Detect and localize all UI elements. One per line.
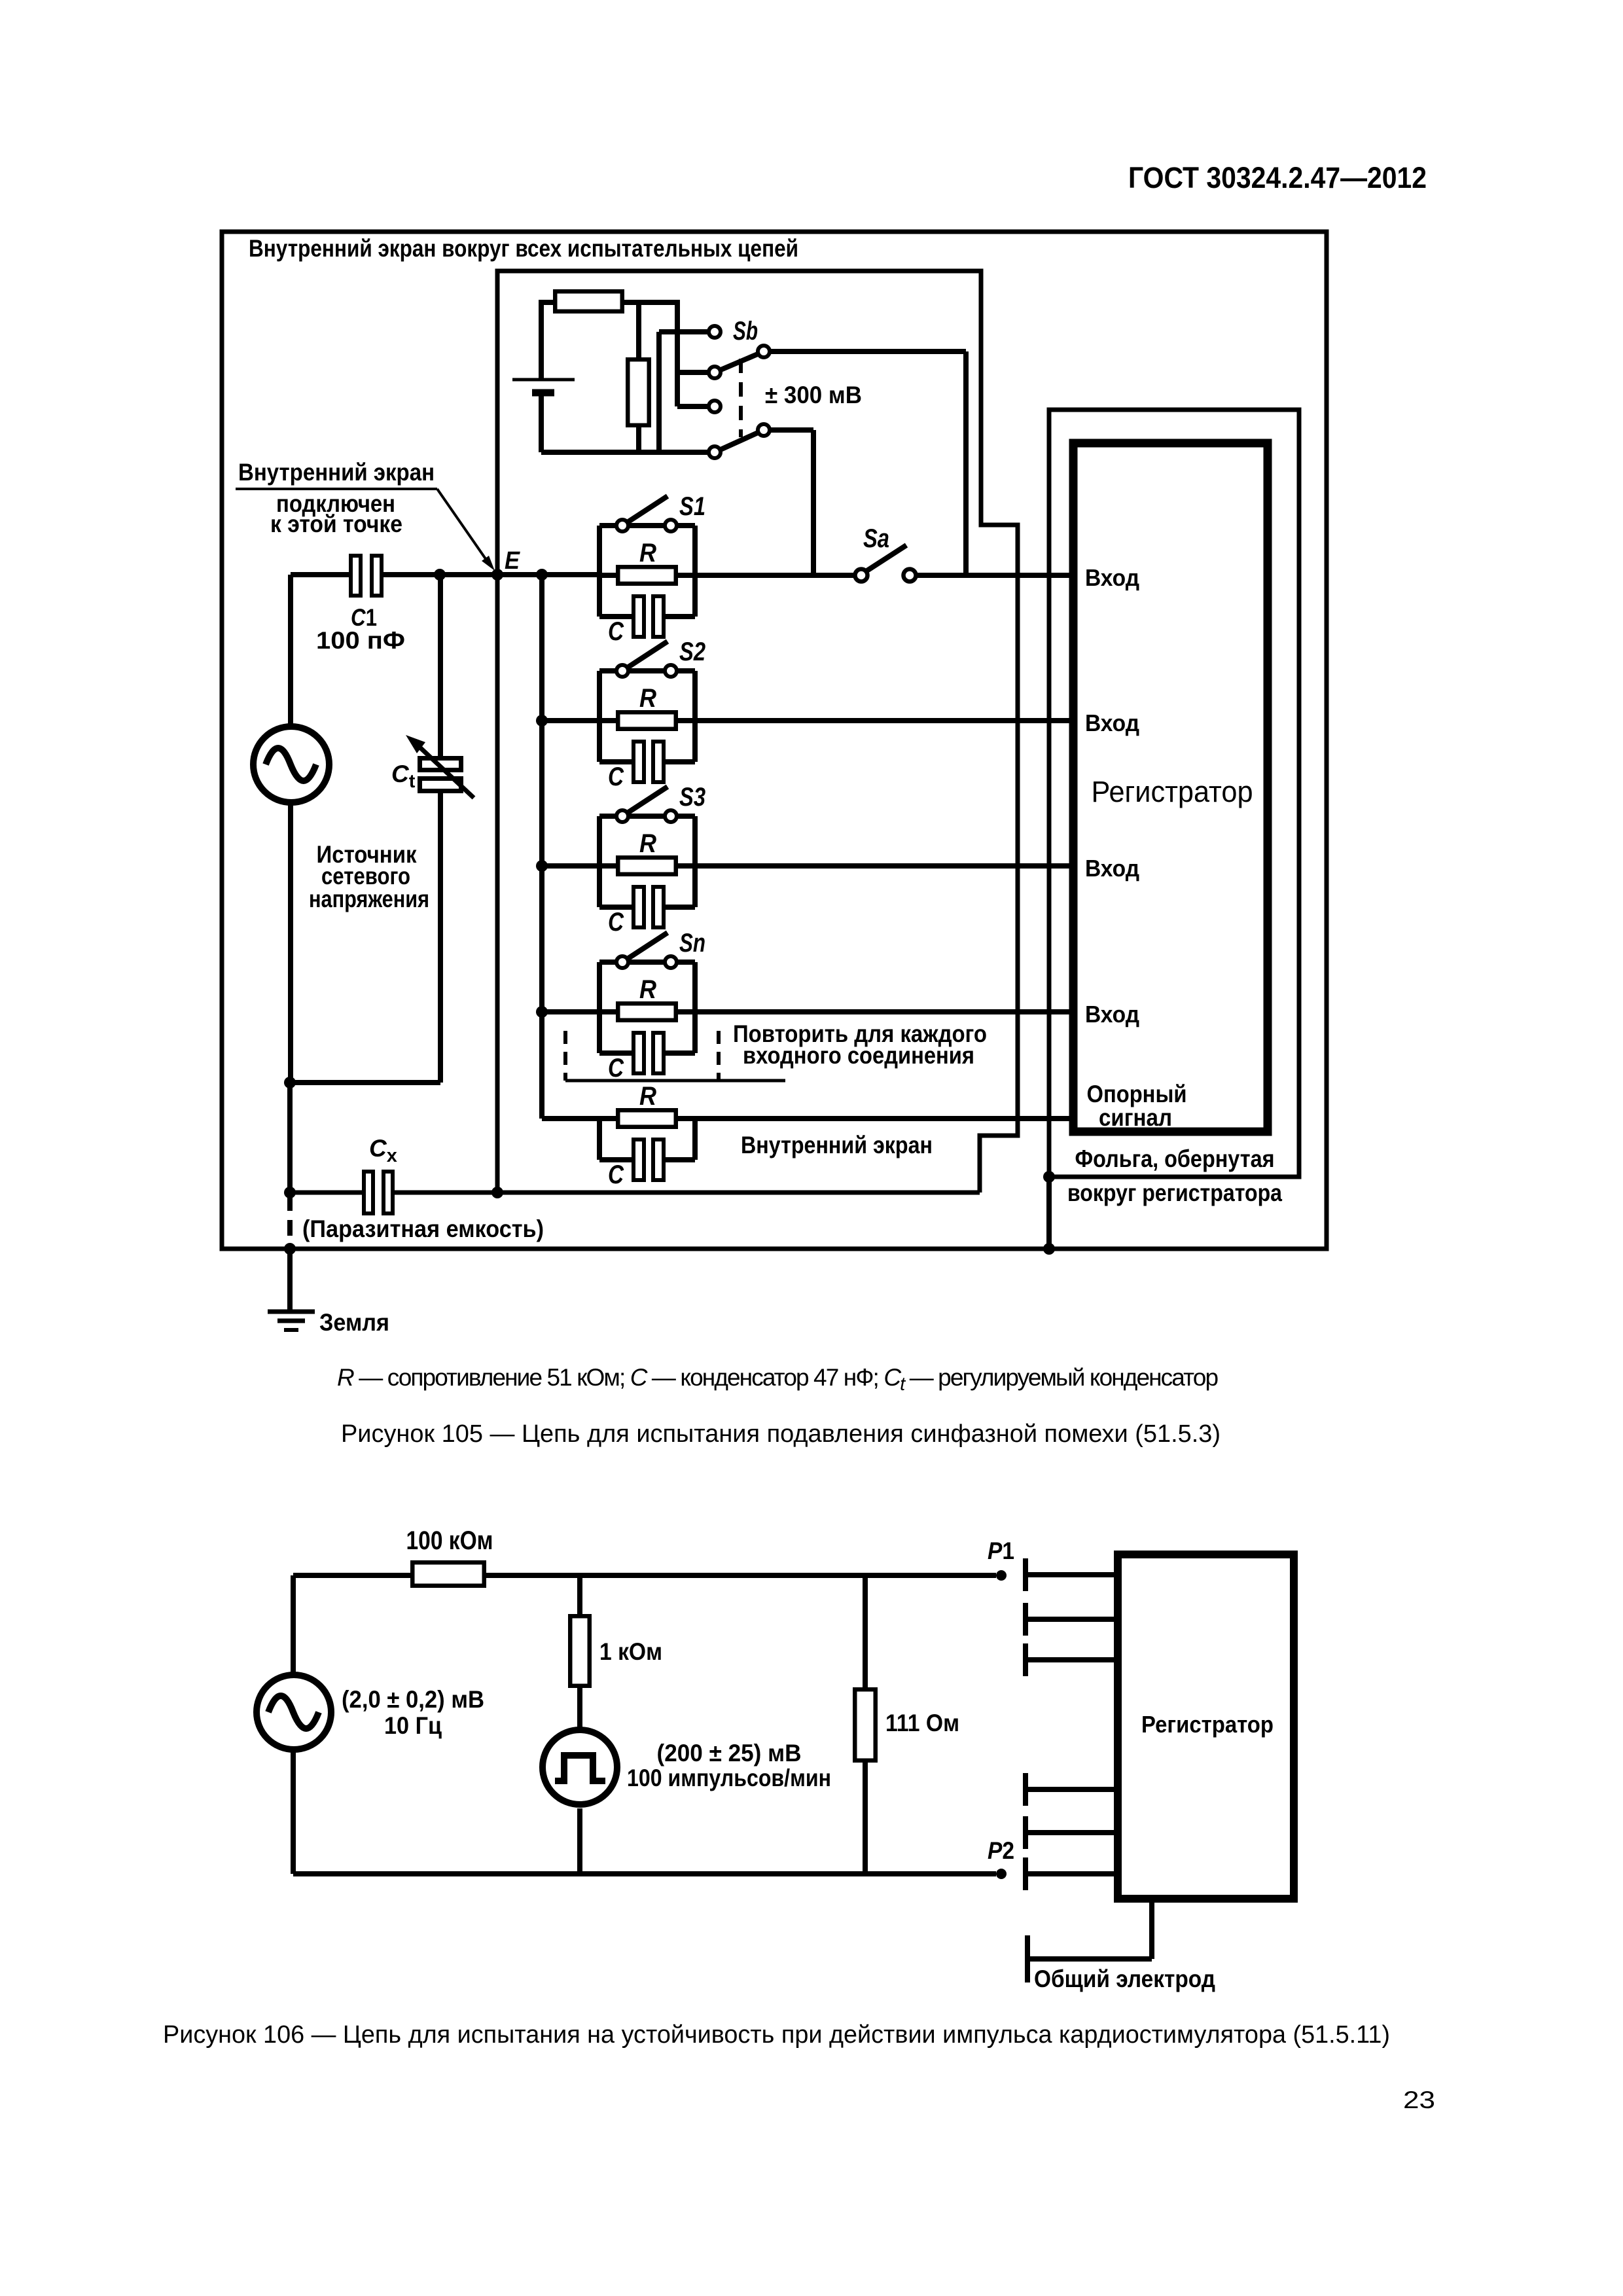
svg-text:(2,0 ± 0,2) мВ: (2,0 ± 0,2) мВ bbox=[342, 1686, 484, 1713]
svg-text:Внутренний экран: Внутренний экран bbox=[238, 459, 435, 486]
svg-text:100 пФ: 100 пФ bbox=[316, 627, 405, 654]
svg-text:Регистратор: Регистратор bbox=[1092, 775, 1253, 808]
wire top line to P1 bbox=[486, 1573, 996, 1578]
outer shield box (screen around all test circuits) bbox=[222, 232, 1327, 1249]
wire bottom line to P2 bbox=[293, 1871, 996, 1876]
svg-text:S1: S1 bbox=[679, 492, 705, 521]
switch S1 arm bbox=[622, 496, 668, 526]
svg-text:Рисунок 105 — Цепь для испыта: Рисунок 105 — Цепь для испытания подавле… bbox=[341, 1420, 1221, 1448]
svg-text:± 300 мВ: ± 300 мВ bbox=[765, 382, 862, 408]
svg-text:С: С bbox=[608, 762, 624, 791]
node junction source bottom bbox=[284, 1077, 296, 1088]
svg-text:100 кОм: 100 кОм bbox=[406, 1526, 493, 1555]
pin wires to registrator bbox=[1028, 1572, 1118, 1577]
resistor R bbox=[599, 1009, 695, 1014]
svg-text:Регистратор: Регистратор bbox=[1141, 1711, 1274, 1738]
svg-text:S2: S2 bbox=[679, 637, 705, 666]
node junction bus/Cx bbox=[284, 1187, 296, 1198]
svg-text:10 Гц: 10 Гц bbox=[384, 1712, 442, 1739]
capacitor C bbox=[599, 905, 632, 910]
common electrode bar bbox=[1025, 1935, 1030, 1982]
svg-text:Вход: Вход bbox=[1085, 564, 1139, 591]
svg-text:R: R bbox=[639, 539, 656, 567]
repetition marks (dashed) bbox=[563, 1031, 567, 1081]
wire input line y=879 bbox=[597, 526, 602, 617]
switch Sa contacts bbox=[855, 569, 868, 582]
svg-text:С: С bbox=[608, 908, 624, 937]
wire stub pole 3 bbox=[677, 404, 709, 409]
svg-text:Земля: Земля bbox=[319, 1309, 389, 1336]
wire bottom rail of battery loop bbox=[541, 450, 709, 455]
wire input line y=1101 bbox=[597, 671, 602, 762]
resistor (battery series) bbox=[555, 291, 622, 312]
svg-text:(200 ± 25) мВ: (200 ± 25) мВ bbox=[657, 1740, 802, 1767]
wire S3 line to registrator bbox=[542, 863, 599, 869]
svg-text:сигнал: сигнал bbox=[1099, 1104, 1172, 1131]
svg-text:Внутренний экран вокруг всех и: Внутренний экран вокруг всех испытательн… bbox=[249, 235, 798, 262]
wire top rail to switch column bbox=[624, 300, 677, 305]
resistor R bbox=[599, 1116, 695, 1121]
svg-text:С: С bbox=[608, 617, 624, 646]
svg-text:Sa: Sa bbox=[863, 524, 889, 553]
svg-text:ГОСТ 30324.2.47—2012: ГОСТ 30324.2.47—2012 bbox=[1128, 161, 1427, 194]
wire stub pole 2 bbox=[677, 370, 709, 375]
svg-text:Sb: Sb bbox=[733, 317, 758, 346]
switch Sb throw contacts bbox=[758, 346, 770, 357]
switch S3 contacts bbox=[616, 810, 628, 822]
switch Sa arm bbox=[864, 545, 906, 573]
node junction at outer box bottom bbox=[284, 1243, 296, 1255]
node junction Ct branch bbox=[434, 569, 446, 581]
wire battery loop left/top bbox=[541, 300, 553, 305]
svg-text:(Паразитная емкость): (Паразитная емкость) bbox=[302, 1215, 544, 1242]
node junction on outer box bottom bbox=[1043, 1243, 1055, 1255]
svg-text:вокруг регистратора: вокруг регистратора bbox=[1067, 1179, 1282, 1206]
wire Sb lower throw to node before Sa bbox=[770, 427, 813, 433]
svg-text:R: R bbox=[639, 684, 656, 713]
capacitor C bbox=[599, 1050, 632, 1056]
switch S2 arm bbox=[622, 641, 668, 671]
switch Sb arm lower bbox=[715, 430, 764, 452]
svg-text:Рисунок 106 — Цепь для испыта: Рисунок 106 — Цепь для испытания на усто… bbox=[163, 2021, 1390, 2049]
wire source bottom loop bbox=[288, 805, 293, 1083]
node E junction dot bbox=[491, 569, 503, 581]
inner shield box around test circuits bbox=[497, 271, 1018, 1193]
wire pole-1 feed bbox=[659, 329, 709, 334]
resistor R bbox=[599, 718, 695, 723]
capacitor Cx (stray capacitance) bbox=[290, 1191, 362, 1195]
svg-text:Вход: Вход bbox=[1085, 1001, 1139, 1028]
svg-text:R: R bbox=[639, 829, 656, 858]
switch S3 arm bbox=[622, 787, 668, 816]
node junction left bus bbox=[536, 569, 548, 581]
switch S2 contacts bbox=[616, 665, 628, 677]
recorder (registrator) box fig106 bbox=[1118, 1554, 1294, 1899]
wire input line y=1546 bbox=[597, 962, 602, 1053]
svg-text:S3: S3 bbox=[679, 783, 705, 812]
svg-text:входного соединения: входного соединения bbox=[743, 1042, 974, 1069]
node junction foil/ground stub bbox=[1043, 1171, 1055, 1183]
svg-text:P2: P2 bbox=[988, 1837, 1014, 1864]
wire E line (main common-mode line) bbox=[383, 572, 599, 577]
switch Sb mechanical link (dashed) bbox=[739, 359, 743, 437]
foil wrapped around registrator (box) bbox=[1049, 410, 1299, 1177]
terminal P2 bbox=[996, 1869, 1007, 1879]
node junction bus/S2 bbox=[536, 715, 548, 726]
svg-text:С: С bbox=[608, 1160, 624, 1189]
wire Sn line to registrator bbox=[542, 1009, 599, 1014]
switch Sb arm upper bbox=[715, 351, 764, 372]
wire left bus lower bbox=[287, 1083, 293, 1113]
wire reference line to registrator bbox=[542, 1116, 599, 1121]
svg-text:к этой точке: к этой точке bbox=[270, 511, 402, 537]
terminal P1 bbox=[996, 1570, 1007, 1581]
wire dashed bus to ground node bbox=[287, 1113, 293, 1193]
resistor 111 Ohm bbox=[863, 1575, 868, 1687]
common electrode wire bbox=[1149, 1899, 1154, 1959]
svg-text:100 импульсов/мин: 100 импульсов/мин bbox=[627, 1765, 831, 1791]
svg-text:R: R bbox=[639, 975, 656, 1004]
wire S1 line segments bbox=[695, 573, 853, 578]
svg-text:23: 23 bbox=[1403, 2087, 1435, 2113]
ground symbol bbox=[287, 1249, 293, 1310]
node junction bus/Sn bbox=[536, 1006, 548, 1018]
resistor 1 kOhm bbox=[577, 1575, 582, 1614]
wire input line y=1709 bbox=[597, 1119, 602, 1160]
svg-text:Внутренний экран: Внутренний экран bbox=[741, 1132, 933, 1158]
node junction inner screen/Cx wire bbox=[491, 1187, 503, 1198]
svg-text:P1: P1 bbox=[988, 1537, 1014, 1564]
resistor R bbox=[599, 863, 695, 869]
svg-text:111 Ом: 111 Ом bbox=[885, 1710, 959, 1736]
capacitor C bbox=[599, 1157, 632, 1162]
svg-text:Вход: Вход bbox=[1085, 709, 1139, 736]
resistor R bbox=[599, 573, 695, 578]
switch S1 contacts bbox=[616, 520, 628, 531]
svg-text:Фольга, обернутая: Фольга, обернутая bbox=[1075, 1145, 1275, 1172]
wire input line y=1323 bbox=[597, 816, 602, 907]
wire S2 line to registrator bbox=[542, 718, 599, 723]
wire Sb upper throw to node after Sa bbox=[770, 349, 966, 354]
capacitor C1 bbox=[291, 572, 349, 577]
svg-text:R — сопротивление 51 кОм; С —: R — сопротивление 51 кОм; С — конденсато… bbox=[337, 1364, 1218, 1395]
svg-text:1 кОм: 1 кОм bbox=[599, 1638, 662, 1665]
switch Sn contacts bbox=[616, 956, 628, 968]
svg-text:Опорный: Опорный bbox=[1087, 1081, 1187, 1107]
wire foil to outer screen bbox=[1046, 1177, 1052, 1249]
node junction bus/S3 bbox=[536, 860, 548, 872]
AC mains voltage source G1 bbox=[288, 575, 293, 725]
wire left bus bbox=[539, 575, 544, 1119]
svg-text:Вход: Вход bbox=[1085, 855, 1139, 882]
capacitor C bbox=[599, 759, 632, 764]
svg-text:E: E bbox=[505, 547, 520, 575]
battery B1 plates bbox=[512, 378, 575, 382]
svg-text:Sn: Sn bbox=[679, 929, 705, 958]
switch Sn arm bbox=[622, 933, 668, 962]
pulse generator (pacemaker pulse source) bbox=[543, 1730, 617, 1804]
svg-text:напряжения: напряжения bbox=[309, 886, 429, 912]
electrode bars bbox=[1023, 1558, 1028, 1591]
switch Sb pole contacts bbox=[709, 326, 721, 338]
AC source (2 mV 10 Hz) bbox=[291, 1575, 296, 1673]
svg-text:С: С bbox=[608, 1054, 624, 1083]
svg-text:Общий электрод: Общий электрод bbox=[1034, 1965, 1215, 1992]
resistor 100 kOhm bbox=[293, 1573, 410, 1578]
recorder (registrator) box bbox=[1073, 443, 1268, 1132]
variable capacitor Ct bbox=[438, 575, 443, 761]
capacitor C bbox=[599, 614, 632, 619]
svg-text:R: R bbox=[639, 1082, 656, 1111]
resistor (divider, vertical) bbox=[636, 302, 641, 357]
